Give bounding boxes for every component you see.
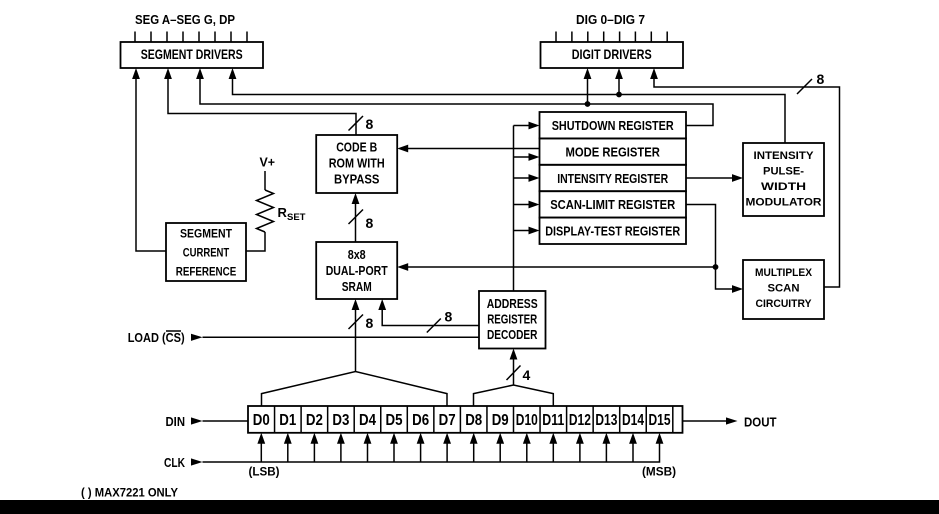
wire: shift register to SRAM (8-bit bus) (352, 299, 360, 372)
register MODE REGISTER (540, 138, 687, 164)
svg-text:INTENSITY REGISTER: INTENSITY REGISTER (557, 171, 668, 186)
wire: scan-limit register to junction (686, 205, 716, 268)
register SHUTDOWN REGISTER (540, 112, 687, 138)
svg-text:SEGMENT: SEGMENT (180, 229, 232, 241)
wire: select mode register (514, 153, 540, 161)
wire: multiplex scan circuitry to digit drivers (8-bit bus) (650, 68, 839, 287)
svg-text:8: 8 (445, 309, 453, 325)
svg-text:DUAL-PORT: DUAL-PORT (326, 264, 388, 278)
wire RSET to segment current reference (246, 232, 265, 251)
svg-text:D3: D3 (332, 412, 349, 429)
svg-text:SEG A–SEG G, DP: SEG A–SEG G, DP (135, 12, 235, 27)
register DISPLAY-TEST REGISTER (540, 218, 687, 244)
svg-text:BYPASS: BYPASS (334, 173, 380, 187)
svg-text:SEGMENT DRIVERS: SEGMENT DRIVERS (141, 46, 243, 62)
bus slash (8) (427, 319, 441, 333)
bus slash (8) (797, 79, 812, 94)
junction dot (616, 92, 622, 98)
svg-text:D12: D12 (569, 412, 591, 429)
register INTENSITY REGISTER (540, 165, 687, 191)
register stack inner dividers (540, 138, 687, 217)
bus slash (8) (349, 116, 364, 131)
block MULTIPLEX SCAN CIRCUITRY (743, 260, 824, 319)
input arrow DIN (191, 417, 203, 424)
svg-text:D2: D2 (306, 412, 323, 429)
block SEGMENT CURRENT REFERENCE (166, 223, 246, 281)
bus slash (4) (507, 366, 521, 381)
svg-text:MODE REGISTER: MODE REGISTER (565, 144, 660, 159)
block DIGIT DRIVERS (541, 42, 684, 68)
svg-text:DIGIT DRIVERS: DIGIT DRIVERS (572, 46, 652, 62)
wire: address decoder to SRAM (8-bit bus) (378, 299, 479, 326)
svg-text:MULTIPLEX: MULTIPLEX (755, 267, 813, 279)
svg-text:CURRENT: CURRENT (183, 248, 230, 260)
svg-text:DECODER: DECODER (487, 327, 538, 342)
wire: segment current reference to segment drivers (132, 68, 166, 251)
svg-text:CODE B: CODE B (336, 141, 377, 155)
register SCAN-LIMIT REGISTER (540, 191, 687, 217)
svg-text:8: 8 (366, 315, 374, 331)
clock risers to D0-D14 (257, 433, 636, 462)
wire: code B ROM to segment drivers (8-bit bus) (164, 68, 356, 135)
svg-text:4: 4 (523, 367, 531, 383)
wire LOAD to address register decoder (203, 336, 480, 338)
junction dot (713, 264, 719, 270)
output arrow DOUT (726, 417, 738, 424)
input arrow LOAD (191, 334, 203, 341)
bus slash (8) (349, 210, 364, 225)
svg-text:( ) MAX7221 ONLY: ( ) MAX7221 ONLY (81, 486, 178, 500)
svg-text:D9: D9 (492, 412, 509, 429)
svg-text:SCAN-LIMIT REGISTER: SCAN-LIMIT REGISTER (550, 197, 676, 212)
svg-text:D5: D5 (386, 412, 403, 429)
funnel D0-D7 to SRAM (262, 372, 448, 407)
svg-text:(LSB): (LSB) (249, 465, 280, 479)
svg-text:D10: D10 (516, 412, 538, 429)
svg-text:WIDTH: WIDTH (761, 181, 806, 193)
svg-text:DIN: DIN (166, 414, 186, 429)
resistor RSET (257, 190, 274, 232)
svg-text:V+: V+ (260, 155, 276, 170)
label RSET (278, 205, 306, 223)
block INTENSITY PULSE-WIDTH MODULATOR (743, 143, 824, 216)
wire: intensity PWM to segment and digit drivers (229, 68, 785, 143)
wire: shift register to address decoder (4-bit bus) (510, 349, 518, 386)
svg-text:D1: D1 (279, 412, 296, 429)
block 8x8 DUAL-PORT SRAM (316, 242, 397, 299)
svg-text:DOUT: DOUT (744, 415, 777, 430)
wire: branch up to digit drivers (615, 68, 623, 95)
svg-text:D6: D6 (412, 412, 429, 429)
wire CLK distribution (203, 441, 660, 462)
svg-text:D8: D8 (465, 412, 482, 429)
svg-text:SHUTDOWN REGISTER: SHUTDOWN REGISTER (552, 118, 674, 133)
svg-text:INTENSITY: INTENSITY (754, 150, 815, 162)
svg-text:SET: SET (287, 212, 306, 223)
junction dot (585, 101, 591, 107)
wire shift register to DOUT (683, 420, 727, 422)
svg-text:8: 8 (817, 71, 825, 87)
svg-text:ADDRESS: ADDRESS (487, 296, 538, 311)
clock riser arrowhead D15 (656, 433, 664, 444)
svg-text:(MSB): (MSB) (642, 465, 676, 479)
label LOAD (CS-bar) (128, 330, 185, 345)
cell dividers (275, 406, 673, 433)
svg-text:LOAD (CS): LOAD (CS) (128, 330, 185, 345)
svg-text:SRAM: SRAM (342, 280, 372, 294)
funnel D8-D11 to address decoder (474, 385, 554, 406)
block ADDRESS REGISTER DECODER (479, 291, 546, 349)
digit driver output pins (8 ticks) (556, 32, 667, 42)
wire: select scan-limit register (514, 201, 540, 209)
wire: select intensity register (514, 174, 540, 182)
svg-text:D14: D14 (622, 412, 644, 429)
wire: junction to multiplex scan circuitry (716, 267, 744, 293)
bus slash (8) (349, 315, 364, 330)
svg-text:D4: D4 (359, 412, 376, 429)
svg-text:CLK: CLK (164, 455, 185, 470)
wire: branch up to digit drivers (584, 68, 592, 104)
svg-text:D7: D7 (439, 412, 456, 429)
segment driver output pins (8 ticks) (135, 32, 247, 42)
svg-text:ROM WITH: ROM WITH (329, 157, 385, 171)
wire: select shutdown register (514, 122, 540, 130)
bus: address decoder to register select lines (513, 126, 515, 292)
svg-text:8x8: 8x8 (348, 248, 366, 262)
svg-text:CIRCUITRY: CIRCUITRY (756, 298, 813, 310)
svg-text:R: R (278, 205, 288, 220)
wire: intensity register to intensity PWM (686, 174, 743, 182)
svg-text:8: 8 (366, 116, 374, 132)
svg-text:D15: D15 (649, 412, 671, 429)
wire: junction to SRAM (397, 263, 715, 271)
wire: SRAM to code B ROM (8-bit bus) (352, 193, 360, 242)
svg-text:D11: D11 (542, 412, 564, 429)
svg-text:MODULATOR: MODULATOR (746, 197, 822, 209)
svg-text:DIG 0–DIG 7: DIG 0–DIG 7 (576, 12, 645, 27)
svg-text:PULSE-: PULSE- (763, 166, 804, 178)
block CODE B ROM WITH BYPASS (316, 135, 397, 193)
svg-text:DISPLAY-TEST REGISTER: DISPLAY-TEST REGISTER (545, 224, 680, 239)
svg-text:8: 8 (366, 215, 374, 231)
svg-text:SCAN: SCAN (768, 283, 800, 295)
svg-text:REFERENCE: REFERENCE (176, 267, 237, 279)
svg-text:D13: D13 (595, 412, 617, 429)
footer bar (0, 500, 939, 514)
block shift register D0-D15 (248, 406, 683, 433)
wire DIN to shift register (203, 420, 249, 422)
block SEGMENT DRIVERS (121, 42, 264, 68)
wire: mode register to code B ROM (397, 145, 539, 153)
svg-text:REGISTER: REGISTER (487, 312, 537, 327)
wire: select display-test register (514, 227, 540, 235)
svg-text:D0: D0 (253, 412, 270, 429)
input arrow CLK (191, 458, 203, 465)
wire: shutdown register to segment and digit drivers (196, 68, 713, 126)
wire V+ to RSET (264, 171, 266, 190)
